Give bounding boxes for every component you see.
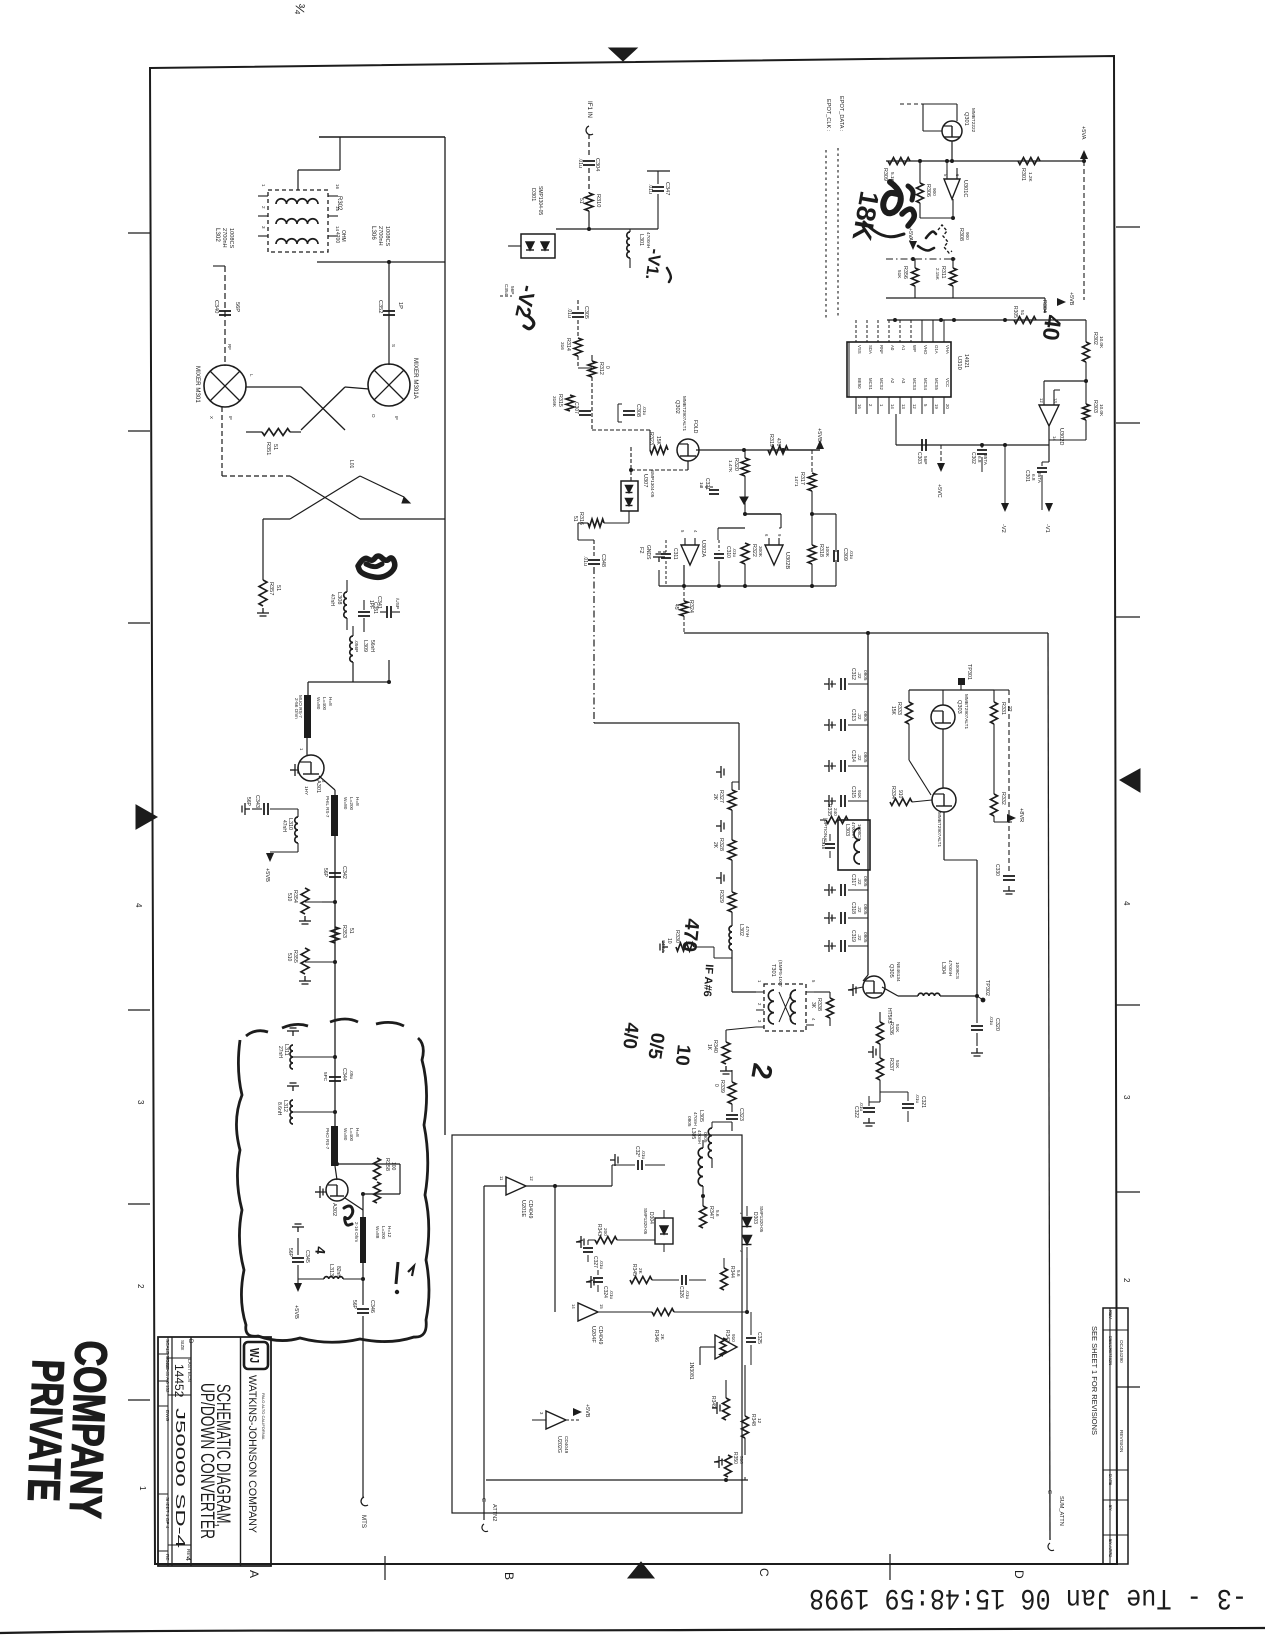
svg-text:C: C [480, 1498, 486, 1502]
capacitor C318 [824, 912, 832, 924]
wire Q302 emitter to +5VB rail [696, 449, 820, 451]
inductor L312 [293, 1111, 335, 1113]
svg-text:4: 4 [184, 1557, 191, 1561]
svg-text:FOLD: FOLD [692, 420, 698, 434]
svg-text:MIXER M301: MIXER M301 [194, 366, 201, 403]
wire from C348 net [594, 722, 739, 724]
svg-text:DESCRIPTION: DESCRIPTION [1108, 1336, 1113, 1365]
resistor R320 [741, 458, 749, 476]
svg-text:-V2: -V2 [1000, 524, 1006, 533]
transistor Q303 [931, 705, 955, 729]
svg-text:(SMPS-1007: (SMPS-1007 [778, 960, 783, 987]
resistor R310 [585, 193, 593, 211]
svg-text:Q301: Q301 [963, 112, 969, 126]
inductor L301 [627, 232, 630, 258]
svg-text:510: 510 [739, 1456, 744, 1464]
svg-text:2700nH: 2700nH [221, 228, 227, 248]
svg-text:.01u: .01u [599, 1260, 604, 1270]
svg-text:WJ: WJ [247, 1348, 262, 1363]
svg-text:27nH: 27nH [277, 1046, 283, 1058]
resistor R337 [877, 1058, 884, 1080]
svg-text:L302: L302 [738, 924, 744, 936]
svg-text:51K: 51K [895, 1060, 900, 1069]
svg-text:R324: R324 [688, 600, 694, 613]
svg-text:15: 15 [599, 1304, 604, 1309]
svg-text:C354: C354 [504, 284, 509, 296]
svg-text:VHA: VHA [945, 345, 950, 354]
svg-text:15K: 15K [890, 706, 896, 716]
svg-text:R330: R330 [674, 930, 680, 943]
svg-text:C352: C352 [377, 300, 383, 313]
svg-text:R309: R309 [882, 168, 888, 181]
svg-text:240: 240 [833, 808, 838, 816]
svg-text:X: X [209, 416, 214, 419]
svg-text:.01u: .01u [989, 1016, 994, 1026]
svg-text:L309: L309 [362, 640, 368, 652]
svg-text:U204F: U204F [590, 1326, 596, 1343]
svg-text:IF A#6: IF A#6 [701, 964, 715, 997]
wire Q305 out / L304 [882, 987, 898, 996]
svg-text:10: 10 [671, 1043, 694, 1066]
svg-text:.01u: .01u [609, 1290, 614, 1300]
svg-text:.22: .22 [857, 906, 862, 913]
resistor R330 [676, 943, 694, 951]
power +5VB top right [1057, 298, 1066, 306]
svg-text:.01u: .01u [582, 556, 588, 566]
capacitor C311 [661, 553, 671, 555]
svg-text:R308: R308 [958, 228, 964, 241]
svg-text:U301C: U301C [962, 180, 968, 197]
svg-text:MMBT2222: MMBT2222 [971, 108, 976, 133]
buffer U202G [546, 1411, 566, 1429]
svg-text:Q302: Q302 [674, 400, 680, 414]
svg-text:B: B [502, 1572, 516, 1580]
svg-text:MCS2: MCS2 [879, 378, 884, 391]
wire L306 to mixer [388, 262, 390, 365]
svg-text:R346: R346 [653, 1330, 659, 1342]
handwritten mark near A302 [344, 1206, 353, 1225]
svg-text:VCC: VCC [945, 378, 950, 387]
wire Q301 bias loop [923, 103, 957, 105]
capacitor C320 [976, 996, 978, 1023]
svg-text:C343: C343 [254, 795, 260, 808]
resistor R351 [262, 429, 290, 436]
svg-text:CD4049: CD4049 [564, 1436, 569, 1454]
svg-text:R332: R332 [1000, 792, 1006, 805]
resistor R314 [574, 338, 582, 356]
svg-text:MCS5: MCS5 [934, 378, 939, 391]
svg-text:C347: C347 [664, 182, 670, 195]
microstrip line 4 [360, 1217, 366, 1263]
capacitor C348 [593, 540, 595, 557]
svg-text:H=12: H=12 [387, 1226, 392, 1238]
inductor L313 [298, 1278, 324, 1280]
svg-text:L=400: L=400 [322, 697, 327, 711]
svg-text:NE46134: NE46134 [896, 962, 901, 982]
svg-text:C341: C341 [376, 596, 382, 609]
svg-text:T301: T301 [770, 964, 776, 977]
bottom bus attn [486, 1479, 748, 1481]
svg-text:/USP: /USP [395, 598, 400, 609]
capacitor C304 [583, 160, 595, 162]
svg-text:C308: C308 [635, 404, 641, 417]
svg-text:4700: 4700 [334, 232, 340, 243]
resistor R348 [742, 1416, 749, 1438]
wire to MTS connector [362, 1316, 364, 1497]
resistor R358 feedback [337, 1163, 400, 1165]
svg-text:IF: IF [228, 416, 233, 420]
svg-text:82nH: 82nH [335, 1266, 341, 1278]
bias rail right [1008, 690, 1010, 873]
svg-text:H=8: H=8 [328, 697, 333, 706]
resistor R309 [888, 158, 910, 165]
svg-text:.01u: .01u [685, 1290, 690, 1300]
svg-text:A: A [247, 1570, 261, 1578]
net -V1 bottom [1045, 503, 1053, 512]
svg-text:U310: U310 [956, 356, 962, 370]
resistor R355 [305, 961, 335, 963]
svg-text:R345: R345 [631, 1264, 637, 1276]
svg-text:C342: C342 [341, 866, 347, 879]
svg-text:PRIVATE: PRIVATE [18, 1359, 74, 1503]
svg-text:MMBT2907ALT1: MMBT2907ALT1 [682, 396, 687, 431]
capacitor C323 [731, 1104, 733, 1112]
frame zone ticks bottom edge [384, 1556, 386, 1580]
svg-text:6.8: 6.8 [977, 456, 982, 463]
bus above U310 [887, 319, 1086, 321]
revision block box [1103, 1308, 1128, 1564]
capacitor C321b [902, 1103, 914, 1105]
svg-text:U201E: U201E [520, 1200, 526, 1217]
svg-text:OHM: OHM [340, 230, 346, 242]
svg-text:4: 4 [1122, 901, 1131, 906]
mixer M301A [368, 364, 410, 406]
border frame [150, 56, 1117, 1564]
svg-text:REVISION: REVISION [1119, 1430, 1124, 1452]
svg-text:.01u: .01u [732, 548, 737, 558]
svg-text:IF1 IN: IF1 IN [586, 101, 593, 118]
svg-text:C318: C318 [850, 902, 856, 914]
resistor R315 [566, 395, 574, 411]
resistor R308 diagonal [938, 225, 952, 253]
resistor R353 [331, 927, 339, 943]
svg-text:C315: C315 [850, 786, 856, 798]
page bottom edge line [0, 1628, 1265, 1633]
svg-text:51: 51 [572, 516, 578, 522]
resistor R332 [991, 794, 998, 816]
svg-text:0/5: 0/5 [643, 1031, 668, 1061]
svg-text:2.15K: 2.15K [935, 268, 940, 280]
capacitor C310 [714, 553, 724, 555]
svg-text:35TA: 35TA [983, 454, 988, 466]
svg-text:.05u: .05u [349, 1070, 354, 1080]
svg-text:RF: RF [227, 344, 232, 350]
svg-text:.01u: .01u [566, 308, 572, 318]
svg-text:+5VB: +5VB [584, 1404, 590, 1418]
wire C343 node to chain [297, 808, 299, 810]
svg-text:51: 51 [275, 585, 281, 591]
svg-text:4: 4 [134, 903, 143, 908]
svg-text:R334: R334 [890, 786, 896, 799]
svg-text:11: 11 [499, 1176, 504, 1181]
svg-text:2-56 Ohm: 2-56 Ohm [294, 698, 299, 719]
wire node R347 [702, 1196, 704, 1206]
svg-text:2K: 2K [660, 1334, 665, 1341]
svg-text:H=8: H=8 [355, 1128, 360, 1137]
svg-text:1008CS: 1008CS [228, 228, 234, 248]
svg-text:C304: C304 [594, 158, 600, 171]
resistor R347 [700, 1206, 707, 1228]
svg-text:1: 1 [138, 1486, 147, 1491]
svg-text:C344: C344 [341, 1068, 347, 1081]
svg-text:L304: L304 [940, 962, 946, 974]
svg-text:L305: L305 [690, 1128, 696, 1139]
svg-text:L308: L308 [336, 592, 342, 604]
svg-text:.01u: .01u [642, 406, 647, 416]
svg-text:15K: 15K [655, 436, 661, 446]
svg-text:0805: 0805 [863, 904, 868, 915]
svg-text:12: 12 [1039, 398, 1044, 403]
svg-text:R347: R347 [708, 1206, 714, 1219]
svg-text:2: 2 [1122, 1278, 1131, 1283]
capacitor C326 [681, 1275, 683, 1285]
svg-text:A1: A1 [901, 345, 906, 351]
microstrip line 2 [331, 795, 338, 836]
svg-text:D303: D303 [752, 1212, 758, 1224]
frame zone ticks left edge [128, 232, 150, 234]
svg-text:470nH: 470nH [697, 1130, 702, 1144]
transistor Q302 [677, 439, 699, 461]
svg-text:R348: R348 [750, 1414, 756, 1426]
svg-text:1N3081: 1N3081 [688, 1362, 694, 1380]
svg-text:14921: 14921 [963, 354, 969, 368]
svg-text:R318: R318 [818, 544, 824, 557]
svg-text:C301: C301 [1024, 470, 1030, 482]
svg-text:510: 510 [286, 953, 292, 962]
svg-text:0805: 0805 [703, 1132, 708, 1143]
attenuator section box [452, 1135, 742, 1513]
svg-text:900: 900 [932, 188, 937, 196]
resistor R306 [917, 183, 924, 203]
svg-text:R357: R357 [268, 582, 274, 595]
svg-text:316K: 316K [552, 396, 557, 408]
svg-text:Q303: Q303 [956, 700, 962, 714]
svg-text:MIXER M301A: MIXER M301A [412, 358, 419, 400]
svg-text:47nH: 47nH [329, 594, 335, 606]
svg-text:FSCM-41 A 0 152: FSCM-41 A 0 152 [165, 1357, 170, 1393]
svg-text:RNF: RNF [879, 345, 884, 354]
resistor R346 [652, 1309, 674, 1316]
resistor R350 [725, 1455, 732, 1477]
svg-text:C314: C314 [850, 750, 856, 762]
svg-text:6.8: 6.8 [1031, 474, 1036, 481]
microstrip line 3 [334, 1022, 336, 1126]
diode pack U307 [621, 481, 638, 511]
resistor R329 [728, 892, 736, 912]
svg-text:SUM_ATTN: SUM_ATTN [1058, 1496, 1064, 1526]
svg-text:R351: R351 [265, 442, 271, 455]
svg-text:R350: R350 [732, 1452, 738, 1464]
svg-text:0805: 0805 [863, 711, 868, 722]
svg-text:L313: L313 [328, 1264, 334, 1276]
svg-text:40: 40 [1037, 313, 1066, 342]
capacitor C340 [219, 310, 231, 312]
svg-text:12: 12 [529, 1176, 534, 1181]
svg-text:TP302: TP302 [984, 980, 990, 996]
svg-text:L=200: L=200 [349, 797, 354, 811]
svg-text:O1A: O1A [934, 345, 939, 354]
svg-text:PALO ALTO CALIFORNIA: PALO ALTO CALIFORNIA [261, 1393, 266, 1440]
resistor R328 [728, 840, 736, 860]
svg-text:C32*: C32* [634, 1146, 640, 1157]
svg-text:470: 470 [775, 438, 781, 447]
IC U310 [847, 342, 951, 397]
transistor A301 [298, 755, 324, 781]
svg-text:R302: R302 [1092, 332, 1098, 345]
svg-text:2K: 2K [638, 1268, 643, 1275]
svg-text:.22: .22 [857, 713, 862, 720]
wire main vertical chain [334, 836, 336, 1022]
wire Q303-Q304 [942, 729, 944, 788]
svg-text:2-16 Ohm: 2-16 Ohm [354, 1222, 359, 1242]
inductor L304 [918, 993, 940, 996]
svg-text:MCS4: MCS4 [923, 378, 928, 391]
opamp U302A [681, 545, 699, 565]
svg-text:O: O [371, 414, 376, 418]
capacitor C308 [623, 410, 635, 412]
svg-text:C310: C310 [725, 546, 731, 558]
diode D304 [655, 1218, 673, 1244]
capacitor C321 [700, 486, 714, 488]
wire D303 to R342 [746, 1258, 748, 1312]
svg-text:.01u: .01u [647, 184, 653, 194]
svg-text:316: 316 [560, 342, 565, 350]
svg-text:EPOT_DATA :: EPOT_DATA : [838, 96, 844, 132]
svg-text:C307: C307 [573, 402, 579, 414]
svg-text:ATTN2: ATTN2 [491, 1504, 497, 1521]
svg-text:SHEET 1 OF 4: SHEET 1 OF 4 [165, 1497, 170, 1529]
svg-text:¾: ¾ [292, 3, 308, 15]
svg-text:L306: L306 [370, 226, 377, 240]
wire top bus [319, 136, 445, 138]
svg-text:51: 51 [272, 444, 278, 450]
main rail top [886, 160, 1084, 162]
svg-text:1.47K: 1.47K [728, 460, 733, 473]
capacitor C309 [833, 550, 835, 562]
resistor R316 [604, 522, 629, 524]
inductor L308 [344, 592, 347, 618]
svg-text:14: 14 [890, 404, 895, 409]
svg-text:51: 51 [578, 198, 584, 204]
svg-text:1008CS: 1008CS [384, 226, 390, 246]
wire mixer crossover upper [246, 386, 301, 388]
title block dividers [240, 1337, 242, 1566]
inductor L310 [295, 817, 298, 843]
wire L302 to mixer [224, 266, 226, 366]
svg-text:.22: .22 [857, 934, 862, 941]
resistor R334 [890, 799, 912, 806]
capacitor C347 [647, 170, 670, 172]
svg-text:R344: R344 [729, 1266, 735, 1278]
svg-text:100: 100 [390, 1162, 396, 1171]
svg-text:R302: R302 [336, 196, 342, 211]
resistor R324 [680, 601, 688, 616]
opamp U302B [765, 545, 783, 565]
transistor Q301 [942, 121, 962, 141]
svg-text:13: 13 [901, 404, 906, 409]
svg-text:W=88: W=88 [375, 1226, 380, 1239]
svg-text:R335: R335 [826, 804, 832, 816]
svg-text:.01u: .01u [915, 1094, 920, 1104]
svg-text:+5VA: +5VA [907, 228, 913, 241]
svg-text:14452: 14452 [172, 1364, 186, 1398]
svg-text:C302: C302 [970, 452, 976, 464]
svg-text:A0: A0 [890, 345, 895, 351]
resistor R345 [630, 1277, 652, 1284]
bottom bus of filter [659, 585, 836, 587]
resistor R318 [808, 545, 816, 564]
svg-text:UP/DOWN CONVERTER: UP/DOWN CONVERTER [196, 1383, 217, 1539]
svg-text:4/0: 4/0 [618, 1021, 642, 1049]
svg-text:10.0K: 10.0K [1099, 336, 1104, 349]
resistor R336 [879, 1012, 881, 1022]
svg-text:SMP1304-05: SMP1304-05 [537, 186, 543, 215]
svg-text:0805: 0805 [863, 932, 868, 943]
svg-text:510: 510 [286, 893, 292, 902]
svg-text:47nH: 47nH [281, 820, 287, 832]
svg-text:MMBT2907ALT1: MMBT2907ALT1 [964, 694, 969, 729]
svg-text:1008CS: 1008CS [857, 824, 862, 840]
handwritten exclamation [396, 1262, 398, 1284]
handwritten mark near R357 [358, 556, 395, 577]
svg-text:A302: A302 [331, 1203, 337, 1216]
capacitor C327 [583, 1247, 593, 1249]
svg-text:0805: 0805 [863, 752, 868, 763]
svg-text:C345: C345 [304, 1250, 310, 1263]
svg-text:56nH: 56nH [369, 640, 375, 652]
resistor R344 [721, 1268, 728, 1290]
svg-text:F2: F2 [638, 547, 644, 554]
svg-text:W=80: W=80 [343, 1128, 348, 1141]
resistor R327 [728, 790, 736, 810]
resistor R357 [259, 580, 267, 606]
transistor R342 driver [715, 1335, 737, 1359]
svg-text:EPOT_CLK :: EPOT_CLK : [825, 99, 831, 132]
rail to EPOT IC [914, 286, 916, 298]
resistor R311 [950, 268, 957, 286]
svg-text:+5VB: +5VB [293, 1305, 299, 1319]
svg-text:U302A: U302A [700, 540, 706, 557]
wire A302 out [345, 1198, 363, 1210]
wire R302 top [297, 170, 299, 190]
svg-text:R349: R349 [710, 1396, 716, 1408]
svg-text:IF: IF [394, 416, 399, 420]
capacitor C315 [824, 795, 832, 807]
svg-text:EY APPD: EY APPD [1108, 1539, 1113, 1557]
power +8VR [993, 816, 995, 822]
svg-text:U202G: U202G [556, 1436, 562, 1453]
svg-text:910: 910 [897, 790, 903, 799]
svg-text:1u: 1u [699, 482, 704, 488]
svg-text:WP: WP [912, 345, 917, 352]
svg-text:+5VB: +5VB [264, 868, 270, 882]
wire L309 to line [352, 662, 354, 682]
svg-text:C309: C309 [842, 548, 848, 561]
capacitor C325 [746, 1337, 756, 1339]
opamp U301C [944, 179, 960, 199]
capacitor C316 [825, 843, 835, 845]
svg-text:56P: 56P [322, 868, 328, 878]
